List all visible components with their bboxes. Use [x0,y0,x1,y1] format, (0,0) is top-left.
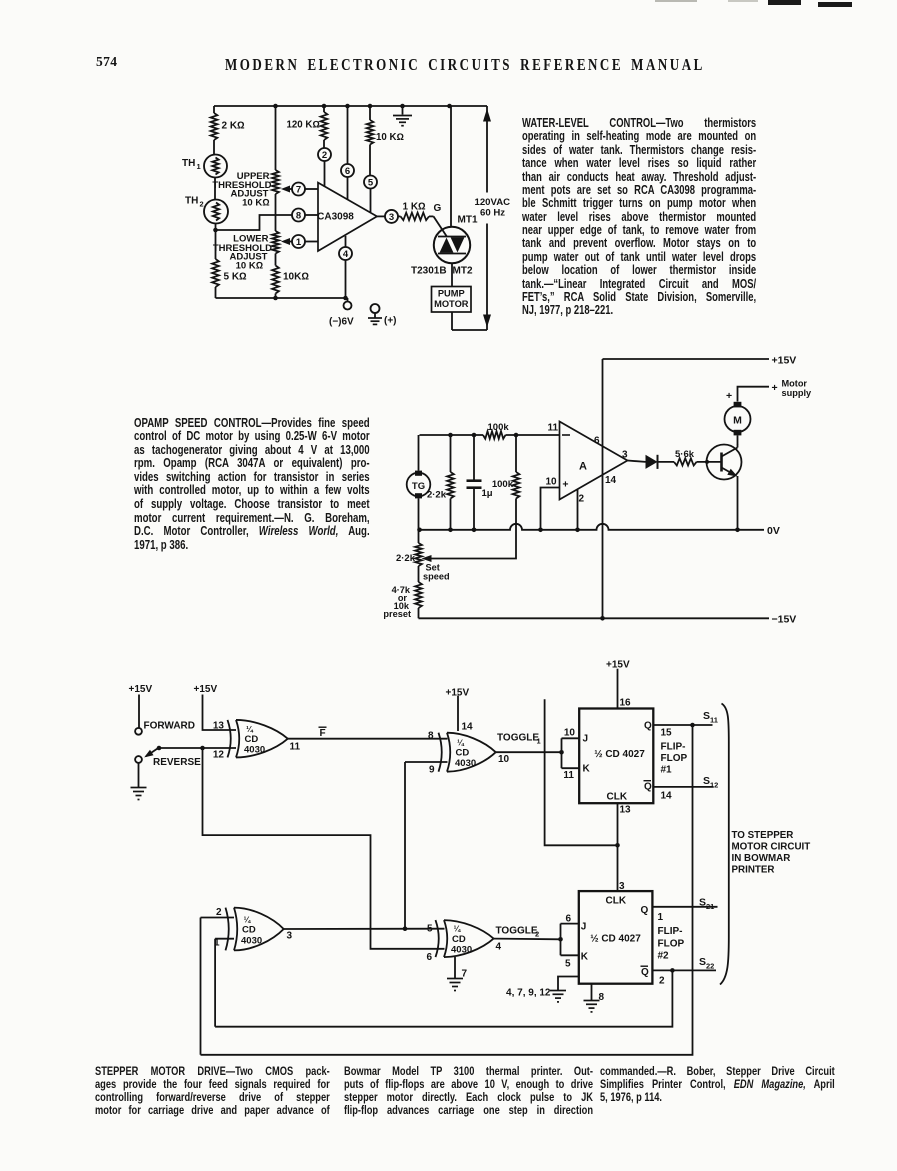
svg-text:9: 9 [429,765,435,776]
svg-text:TH: TH [182,158,195,169]
svg-text:F: F [320,728,326,739]
svg-text:Q: Q [644,782,652,793]
svg-text:100k: 100k [488,422,510,433]
svg-text:−15V: −15V [772,614,797,626]
svg-text:11: 11 [290,742,301,753]
svg-text:11: 11 [710,716,718,725]
svg-text:120 KΩ: 120 KΩ [287,120,320,131]
svg-text:TO STEPPER: TO STEPPER [732,830,794,841]
svg-text:4030: 4030 [455,758,476,769]
svg-text:15: 15 [661,728,673,739]
svg-text:¼: ¼ [244,916,252,925]
svg-text:TOGGLE: TOGGLE [496,926,538,937]
svg-text:+15V: +15V [194,684,218,695]
svg-text:2: 2 [322,150,327,161]
svg-text:4030: 4030 [244,744,265,755]
svg-text:T2301B: T2301B [411,266,447,277]
svg-text:10: 10 [546,477,558,488]
svg-text:+: + [562,479,568,491]
svg-text:+: + [772,382,778,394]
svg-text:3: 3 [389,212,394,223]
svg-text:1: 1 [658,912,664,923]
svg-text:FLIP-: FLIP- [658,926,683,937]
svg-text:(−)6V: (−)6V [329,317,354,328]
svg-text:FLIP-: FLIP- [661,742,686,753]
svg-text:CLK: CLK [607,792,628,803]
svg-text:5: 5 [565,959,571,970]
svg-text:10: 10 [564,728,576,739]
svg-text:TG: TG [412,481,425,492]
svg-text:2: 2 [535,930,539,939]
svg-text:100k: 100k [492,479,514,490]
svg-text:1: 1 [197,162,201,171]
svg-text:CLK: CLK [606,896,627,907]
svg-text:14: 14 [462,722,474,733]
svg-text:4, 7, 9, 12: 4, 7, 9, 12 [506,988,551,999]
svg-text:5 KΩ: 5 KΩ [224,272,248,283]
svg-text:MT2: MT2 [453,266,473,277]
svg-text:+15V: +15V [129,684,153,695]
svg-text:2: 2 [659,976,665,987]
svg-text:MOTOR: MOTOR [434,299,469,309]
svg-text:S: S [703,775,710,787]
svg-text:Q: Q [644,721,652,732]
svg-text:IN BOWMAR: IN BOWMAR [732,853,791,864]
svg-text:1: 1 [296,237,302,248]
svg-text:10 KΩ: 10 KΩ [376,132,404,143]
svg-text:22: 22 [706,962,714,971]
svg-text:10 KΩ: 10 KΩ [242,198,269,209]
svg-text:K: K [581,952,589,963]
svg-text:60 Hz: 60 Hz [480,208,505,219]
svg-text:Q: Q [641,967,649,978]
svg-text:½ CD 4027: ½ CD 4027 [594,749,645,760]
svg-text:MT1: MT1 [458,215,478,226]
svg-text:¼: ¼ [457,739,465,748]
svg-text:Q: Q [641,905,649,916]
svg-text:4: 4 [496,942,502,953]
svg-text:#2: #2 [658,951,670,962]
svg-text:12: 12 [710,781,718,790]
svg-text:¼: ¼ [454,925,462,934]
svg-text:1: 1 [537,737,541,746]
svg-text:J: J [583,734,589,745]
svg-text:REVERSE: REVERSE [153,757,201,768]
svg-text:11: 11 [548,422,559,433]
svg-text:+: + [726,390,732,402]
svg-text:4: 4 [343,249,349,260]
svg-text:3: 3 [287,931,293,942]
svg-text:TH: TH [185,196,198,207]
svg-text:5: 5 [368,178,374,189]
svg-text:16: 16 [620,698,632,709]
svg-text:0V: 0V [767,525,780,537]
svg-text:1: 1 [214,938,220,949]
svg-text:8: 8 [296,210,301,221]
svg-text:6: 6 [594,436,600,447]
svg-text:10 KΩ: 10 KΩ [236,261,263,272]
svg-text:TOGGLE: TOGGLE [497,733,539,744]
svg-text:7: 7 [462,969,468,980]
svg-text:MOTOR CIRCUIT: MOTOR CIRCUIT [732,842,811,853]
svg-text:S: S [703,710,710,722]
svg-text:CA3098: CA3098 [317,212,354,223]
svg-text:supply: supply [782,388,812,398]
svg-text:4030: 4030 [451,944,472,955]
svg-text:3: 3 [622,450,628,461]
svg-text:11: 11 [563,770,574,781]
svg-text:120VAC: 120VAC [475,197,511,208]
svg-text:14: 14 [661,791,673,802]
svg-text:10: 10 [498,754,510,765]
svg-text:6: 6 [565,914,571,925]
svg-text:G: G [434,203,442,214]
svg-text:8: 8 [599,992,605,1003]
svg-text:2·2k: 2·2k [396,553,416,564]
svg-text:4030: 4030 [241,936,262,947]
svg-text:CD: CD [452,934,466,945]
svg-text:S: S [699,897,706,909]
svg-text:S: S [699,956,706,968]
svg-text:¼: ¼ [246,725,254,734]
svg-text:14: 14 [605,475,617,486]
svg-text:½ CD 4027: ½ CD 4027 [590,934,641,945]
svg-text:A: A [579,461,587,473]
svg-text:2 KΩ: 2 KΩ [222,121,246,132]
svg-text:PUMP: PUMP [438,289,465,299]
svg-text:6: 6 [345,166,350,177]
svg-text:CD: CD [242,925,256,936]
svg-text:FLOP: FLOP [658,939,685,950]
svg-text:FORWARD: FORWARD [144,721,195,732]
svg-text:speed: speed [423,572,450,582]
svg-text:M: M [733,414,742,426]
svg-text:7: 7 [296,184,301,195]
svg-text:5·6k: 5·6k [675,449,695,460]
svg-text:#1: #1 [661,765,673,776]
svg-text:PRINTER: PRINTER [732,864,775,875]
svg-text:2: 2 [216,907,222,918]
svg-text:+15V: +15V [772,355,797,367]
svg-text:13: 13 [213,721,225,732]
svg-text:1 KΩ: 1 KΩ [403,202,427,213]
svg-text:5: 5 [427,924,433,935]
svg-text:2: 2 [579,494,585,505]
svg-text:FLOP: FLOP [661,753,688,764]
svg-text:J: J [581,922,587,933]
svg-text:8: 8 [428,731,434,742]
svg-text:6: 6 [426,952,432,963]
svg-text:K: K [583,764,591,775]
svg-text:21: 21 [706,902,714,911]
svg-text:2: 2 [200,200,204,209]
svg-text:(+): (+) [384,316,397,327]
svg-text:10KΩ: 10KΩ [283,272,309,283]
svg-text:preset: preset [383,609,411,619]
svg-text:13: 13 [620,805,632,816]
svg-text:12: 12 [213,750,225,761]
svg-text:2·2k: 2·2k [427,490,447,501]
